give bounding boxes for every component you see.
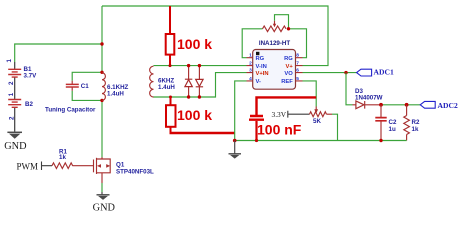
svg-text:1: 1 <box>6 59 13 63</box>
svg-text:7: 7 <box>296 61 299 67</box>
svg-text:PWM: PWM <box>17 161 39 171</box>
wire ADC1 down to D3 <box>346 73 353 105</box>
svg-text:100 k: 100 k <box>177 107 212 123</box>
wire RG loop left <box>242 29 262 58</box>
wire RG loop right <box>289 29 307 58</box>
wire REF thick to 100nF <box>257 97 317 115</box>
battery B1 <box>6 59 37 100</box>
wire 5K down <box>332 114 338 140</box>
wire D3 to ADC2 <box>381 104 420 106</box>
potentiometer RG gain <box>263 21 287 32</box>
resistor R3 100k top <box>166 6 213 66</box>
wire C1 branch top <box>72 72 102 81</box>
svg-text:Tuning Capacitor: Tuning Capacitor <box>45 107 96 114</box>
port ADC1 <box>357 68 394 77</box>
node junction D1 top <box>187 64 190 67</box>
svg-text:V-IN: V-IN <box>256 64 267 70</box>
svg-text:2: 2 <box>9 116 16 120</box>
ground GND left <box>4 132 27 152</box>
svg-text:ADC2: ADC2 <box>438 101 458 110</box>
svg-text:STP40NF03L: STP40NF03L <box>116 169 154 176</box>
svg-text:6: 6 <box>296 68 299 74</box>
svg-text:INA129-HT: INA129-HT <box>259 40 291 47</box>
wire tank2 bottom <box>154 73 247 97</box>
capacitor C1 <box>66 81 89 91</box>
svg-text:1: 1 <box>249 53 252 59</box>
diode D1 <box>185 66 192 97</box>
wire RG wiper loop <box>275 15 289 29</box>
inductor L1 6.1KHZ <box>102 73 129 101</box>
resistor R2 <box>404 105 420 141</box>
node junction R3 tank2 top <box>169 64 172 67</box>
inductor L2 6KHZ <box>150 66 176 97</box>
op-amp U1 INA129-HT <box>247 40 303 89</box>
node junction C2 ground <box>379 139 382 142</box>
svg-text:ADC1: ADC1 <box>374 68 394 77</box>
svg-text:V+: V+ <box>286 64 294 70</box>
wire Vminus net <box>235 81 247 141</box>
wire thick output to Vminus <box>170 132 235 134</box>
svg-text:C1: C1 <box>81 83 89 90</box>
ground GND under Q1 <box>93 192 116 214</box>
node junction D1 bottom <box>187 95 190 98</box>
node junction tank1 bottom <box>100 99 103 102</box>
svg-text:1k: 1k <box>412 126 419 133</box>
transistor Q1 <box>94 157 155 183</box>
port ADC2 <box>420 101 458 110</box>
wire main left vertical lower <box>101 100 103 157</box>
port 3.3V supply <box>272 110 310 119</box>
wire 5K right to ground <box>327 113 333 115</box>
node junction C2 top <box>379 103 383 107</box>
potentiometer R5 5K <box>310 107 327 125</box>
wire ground rail <box>235 140 407 142</box>
svg-text:100 k: 100 k <box>177 36 212 52</box>
svg-text:1u: 1u <box>389 126 396 133</box>
capacitor C3 100nF <box>249 116 302 141</box>
wire tank2 top <box>154 65 247 67</box>
node junction C3 ground <box>255 139 258 142</box>
svg-text:8: 8 <box>296 53 299 59</box>
svg-text:1.4uH: 1.4uH <box>158 84 175 91</box>
svg-text:2: 2 <box>249 61 252 67</box>
svg-text:B2: B2 <box>25 101 33 108</box>
svg-text:100 nF: 100 nF <box>257 121 302 137</box>
svg-text:5: 5 <box>296 76 299 82</box>
capacitor C2 <box>375 105 397 141</box>
wire main left vertical upper <box>101 6 103 72</box>
wire VO to ADC1 <box>303 72 357 74</box>
ground GND middle <box>229 141 242 159</box>
resistor R4 100k bottom <box>166 97 212 133</box>
node junction at battery branch <box>100 42 103 45</box>
svg-text:3.7V: 3.7V <box>24 73 38 80</box>
svg-text:1k: 1k <box>59 154 66 161</box>
svg-text:REF: REF <box>281 79 293 85</box>
svg-text:1N4007W: 1N4007W <box>355 94 383 101</box>
svg-text:3: 3 <box>249 68 252 74</box>
node junction RG pot <box>287 27 290 30</box>
svg-text:3.3V: 3.3V <box>272 110 287 119</box>
svg-text:GND: GND <box>93 203 116 214</box>
wire C1 branch bottom <box>72 91 102 101</box>
port PWM <box>17 161 53 171</box>
battery B2 <box>8 92 33 131</box>
diode D3 <box>353 88 383 109</box>
node junction D2 top <box>198 64 201 67</box>
node junction ADC1 <box>344 71 347 74</box>
svg-text:5K: 5K <box>313 118 321 125</box>
svg-text:4: 4 <box>249 76 252 82</box>
svg-text:V-: V- <box>256 79 262 85</box>
svg-text:RG: RG <box>284 56 293 62</box>
resistor R1 <box>52 148 94 168</box>
wire battery branch <box>15 44 102 62</box>
svg-text:1.4uH: 1.4uH <box>107 90 124 97</box>
node junction R4 tank2 bottom <box>169 96 172 99</box>
diode D2 <box>196 66 203 97</box>
svg-text:RG: RG <box>256 56 265 62</box>
node junction Vminus ground <box>233 139 237 143</box>
svg-text:2: 2 <box>8 81 15 85</box>
wire top supply rail <box>102 6 328 66</box>
svg-text:1: 1 <box>8 92 15 96</box>
wire Q1 source <box>101 183 103 192</box>
svg-text:Q1: Q1 <box>116 162 125 169</box>
svg-text:V+IN: V+IN <box>256 71 269 77</box>
wire REF net <box>303 81 317 107</box>
node junction D2 bottom <box>198 95 201 98</box>
svg-text:GND: GND <box>4 141 27 152</box>
node junction tank1 top <box>100 71 103 74</box>
node junction R2 top <box>405 103 409 107</box>
svg-text:VO: VO <box>284 71 293 77</box>
